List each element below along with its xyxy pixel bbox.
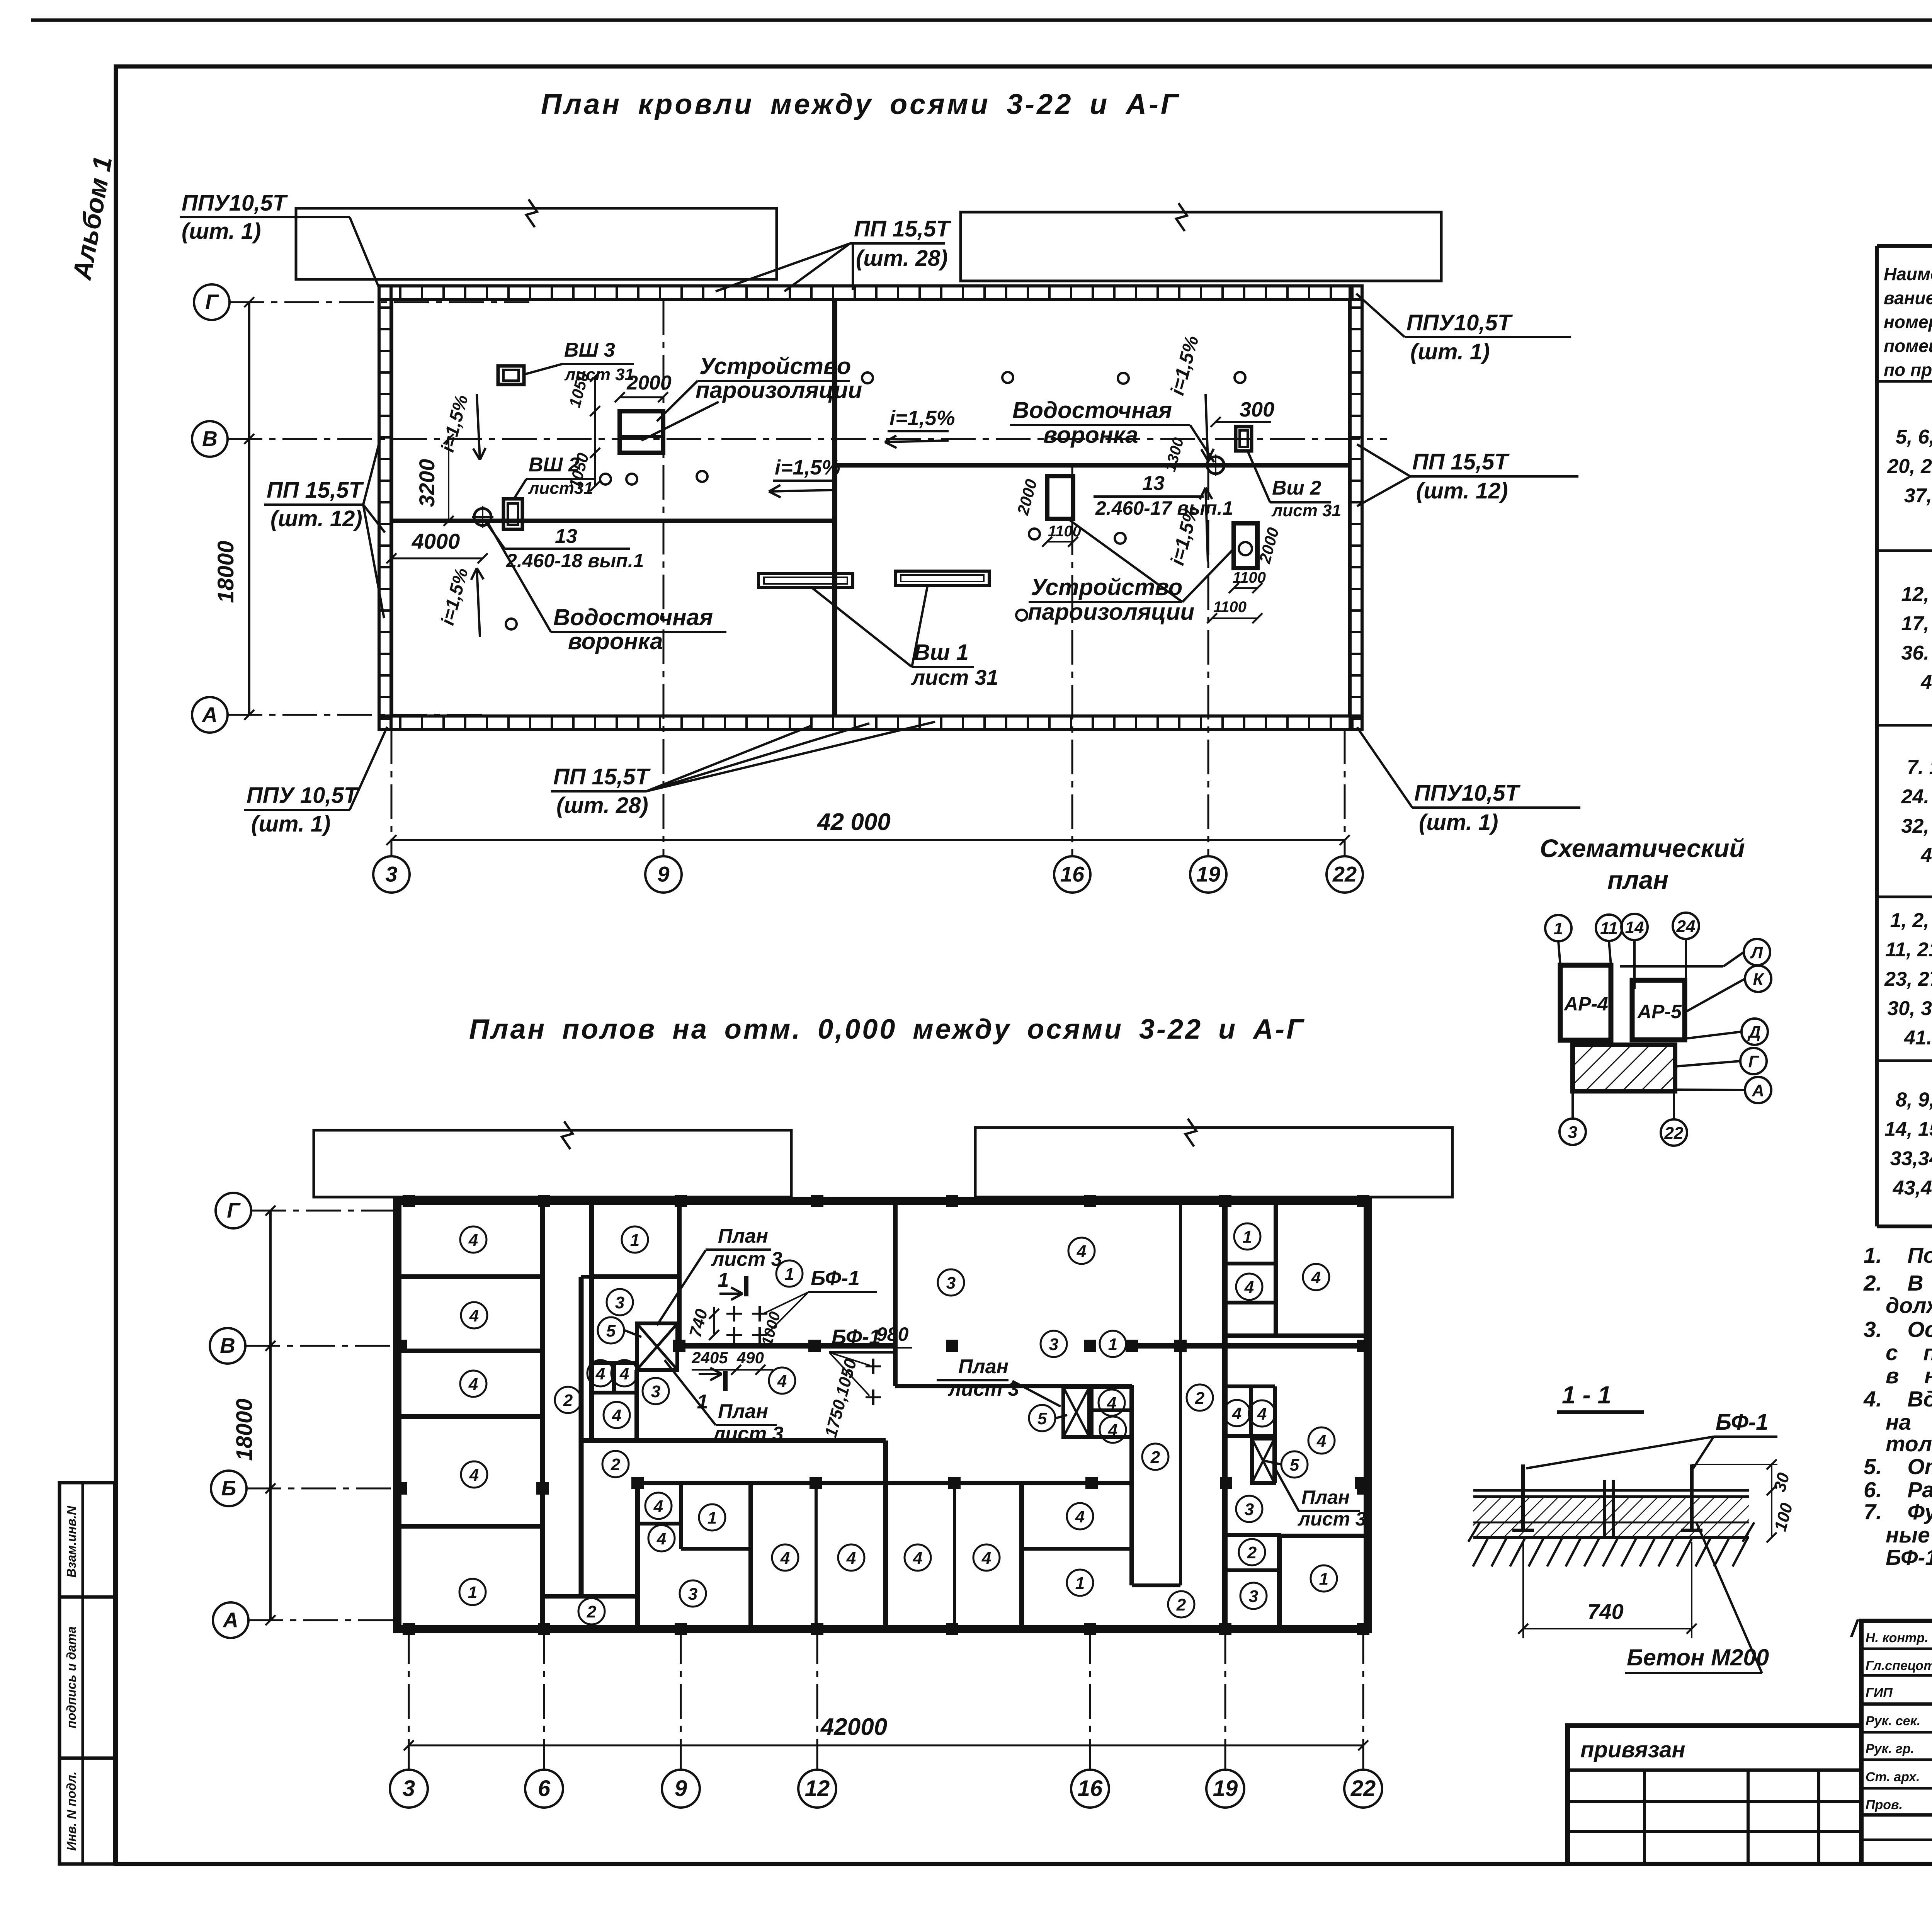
svg-text:32, 46,: 32, 46,	[1901, 815, 1932, 837]
svg-text:с плотностью скелета до 1: с плотностью скелета до 1,6 т/м3 с втрам…	[1886, 1340, 1932, 1365]
roof dividing wall	[832, 299, 837, 716]
svg-text:1: 1	[1554, 919, 1563, 938]
svg-text:Вш 1: Вш 1	[914, 640, 969, 665]
vent slot 2	[895, 571, 989, 585]
svg-text:36. 42.: 36. 42.	[1901, 642, 1932, 664]
svg-text:16: 16	[1078, 1776, 1103, 1801]
svg-text:Н. контр.: Н. контр.	[1866, 1631, 1928, 1645]
svg-text:Г: Г	[227, 1198, 241, 1222]
svg-text:4: 4	[469, 1466, 479, 1485]
svg-text:i=1,5%: i=1,5%	[889, 406, 955, 430]
svg-text:Устройство: Устройство	[1031, 574, 1182, 600]
right top block	[1226, 1262, 1276, 1265]
svg-text:33,34,35,: 33,34,35,	[1890, 1148, 1932, 1170]
svg-text:24: 24	[1676, 917, 1696, 936]
svg-text:8, 9, 10,: 8, 9, 10,	[1896, 1089, 1932, 1111]
roof axis 19 line	[1207, 465, 1209, 856]
svg-text:4: 4	[1316, 1432, 1326, 1451]
svg-text:12, 13,: 12, 13,	[1901, 583, 1932, 605]
svg-text:на ширину 0,8 м от стен: на ширину 0,8 м от стен уложить слой кер…	[1886, 1410, 1932, 1435]
wall x2317	[893, 1201, 898, 1386]
svg-text:БФ-1: БФ-1	[1716, 1410, 1768, 1435]
leader 5 to stair2	[1056, 1415, 1067, 1418]
wall y3587 corridor top	[895, 1384, 1132, 1388]
svg-text:Г: Г	[1748, 1052, 1759, 1071]
svg-text:Пров.: Пров.	[1866, 1798, 1903, 1812]
svg-text:5: 5	[1037, 1409, 1047, 1428]
svg-text:лист 3: лист 3	[1298, 1508, 1366, 1530]
svg-text:по проекту: по проекту	[1884, 360, 1932, 380]
svg-text:Бетон М200: Бетон М200	[1627, 1645, 1769, 1670]
svg-text:Устройство: Устройство	[699, 353, 851, 379]
svg-text:ВШ 3: ВШ 3	[564, 339, 615, 361]
roof axis 16 line	[1071, 465, 1073, 856]
right stair block	[1226, 1384, 1275, 1388]
svg-text:Вш 2: Вш 2	[1272, 477, 1321, 499]
svg-text:3: 3	[651, 1382, 660, 1401]
svg-text:План полов на отм. 0,000 ме: План полов на отм. 0,000 между осями 3-2…	[469, 1014, 1305, 1045]
small rooms near stair1	[592, 1361, 637, 1365]
dim 740	[713, 1307, 715, 1334]
vapour device 2	[1047, 476, 1073, 519]
svg-text:2: 2	[1176, 1595, 1186, 1614]
svg-text:3: 3	[1249, 1587, 1258, 1606]
svg-text:Д: Д	[1747, 1023, 1761, 1042]
svg-text:толщиной 15 см.: толщиной 15 см.	[1886, 1432, 1932, 1456]
dim 4000	[391, 558, 483, 560]
svg-text:12: 12	[805, 1776, 830, 1801]
svg-text:5: 5	[1290, 1456, 1299, 1475]
svg-text:7. 18.: 7. 18.	[1907, 756, 1932, 779]
svg-text:1: 1	[1075, 1574, 1085, 1593]
section ground hatch	[1473, 1539, 1747, 1566]
svg-text:13: 13	[1142, 472, 1165, 495]
section cut 1 lower	[723, 1371, 728, 1391]
svg-text:22: 22	[1350, 1776, 1376, 1801]
left rooms dividers	[397, 1274, 543, 1279]
svg-text:5: 5	[606, 1321, 616, 1340]
svg-text:Водосточная: Водосточная	[553, 604, 713, 630]
drain funnel left	[474, 509, 491, 526]
svg-text:9: 9	[675, 1776, 687, 1801]
svg-text:в него слоем щебня или: в него слоем щебня или гравия крупностью…	[1886, 1364, 1932, 1388]
svg-text:4: 4	[1244, 1278, 1254, 1297]
svg-text:4: 4	[612, 1406, 621, 1425]
schematic circles top	[1545, 915, 1571, 941]
svg-text:План: План	[718, 1400, 768, 1423]
svg-text:номер: номер	[1884, 312, 1932, 332]
svg-text:1: 1	[468, 1583, 477, 1602]
roof valley line right	[835, 463, 1349, 468]
svg-text:(шт. 1): (шт. 1)	[251, 811, 331, 837]
leader 5 to stair1	[625, 1330, 641, 1337]
floor plan outline	[397, 1201, 1368, 1629]
svg-text:ГИП: ГИП	[1866, 1685, 1893, 1700]
break mark right canopy	[1176, 203, 1187, 231]
bottom corridor	[543, 1594, 638, 1599]
svg-text:3: 3	[615, 1293, 624, 1312]
svg-text:(шт. 1): (шт. 1)	[182, 219, 261, 244]
svg-text:4: 4	[1232, 1404, 1242, 1423]
svg-text:2: 2	[611, 1455, 621, 1474]
svg-text:ПП 15,5Т: ПП 15,5Т	[854, 216, 951, 241]
roof plan parapet band bottom	[379, 716, 1362, 730]
vent slot 1	[759, 573, 853, 588]
svg-text:(шт. 28): (шт. 28)	[856, 246, 948, 271]
wall B axis	[679, 1343, 896, 1349]
svg-text:Л: Л	[1750, 943, 1763, 962]
svg-text:4: 4	[1077, 1242, 1086, 1261]
section dims 30 100	[1771, 1464, 1772, 1537]
svg-text:План: План	[718, 1225, 768, 1247]
svg-text:(шт. 1): (шт. 1)	[1419, 810, 1498, 835]
svg-text:11: 11	[1600, 919, 1618, 938]
svg-text:4: 4	[777, 1372, 787, 1391]
svg-text:3: 3	[1049, 1335, 1058, 1354]
sig table rows	[1861, 1648, 1932, 1650]
svg-text:3: 3	[385, 862, 397, 886]
section dim 740	[1522, 1542, 1524, 1638]
schematic hatched strip	[1573, 1045, 1675, 1091]
svg-text:4: 4	[1108, 1421, 1117, 1440]
section cut 1 upper	[744, 1276, 748, 1296]
roof plan parapet band right	[1350, 286, 1362, 730]
right bottom block	[1225, 1533, 1281, 1537]
svg-text:19: 19	[1213, 1776, 1238, 1801]
vapour device 1	[620, 411, 663, 453]
svg-text:3: 3	[946, 1274, 956, 1293]
section edge breaks	[1468, 1522, 1480, 1542]
svg-text:Инв. N подл.: Инв. N подл.	[64, 1771, 78, 1850]
schematic circles bottom	[1560, 1119, 1586, 1145]
svg-text:В: В	[202, 427, 218, 451]
svg-text:2: 2	[587, 1602, 597, 1621]
svg-text:А: А	[201, 702, 218, 726]
svg-text:9: 9	[657, 862, 669, 886]
floor axis circles bottom	[390, 1770, 428, 1808]
svg-text:(шт. 1): (шт. 1)	[1410, 339, 1490, 364]
roof plan: right canopy outline	[961, 212, 1441, 281]
roof bottom dim 42000	[391, 839, 1345, 841]
svg-text:3: 3	[1245, 1500, 1254, 1519]
svg-text:2405: 2405	[691, 1349, 728, 1367]
svg-text:4: 4	[1311, 1268, 1321, 1287]
svg-text:План кровли между осями 3-2: План кровли между осями 3-22 и А-Г	[541, 88, 1180, 120]
svg-text:37, 40: 37, 40	[1904, 485, 1932, 507]
svg-text:1. Покрытие полов назначено: 1. Покрытие полов назначено согласно СНи…	[1864, 1243, 1932, 1268]
svg-text:3: 3	[403, 1776, 415, 1801]
dim 2000 (device1)	[620, 396, 663, 398]
svg-text:3200: 3200	[415, 459, 439, 507]
floor axes left	[251, 1210, 400, 1212]
svg-text:лист 31: лист 31	[1271, 501, 1341, 520]
svg-text:лист 3: лист 3	[712, 1423, 784, 1445]
svg-text:лист 3: лист 3	[711, 1248, 782, 1270]
svg-text:980: 980	[876, 1323, 909, 1345]
floor 18000 dim	[269, 1211, 272, 1620]
roof plan parapet band top	[379, 286, 1362, 299]
svg-text:ППУ10,5Т: ППУ10,5Т	[1406, 310, 1513, 335]
title block outline	[1861, 1621, 1932, 1864]
section slab	[1473, 1489, 1749, 1492]
svg-text:1100: 1100	[1213, 599, 1247, 616]
svg-text:Гл.спецотд: Гл.спецотд	[1866, 1658, 1932, 1673]
svg-text:4: 4	[653, 1497, 663, 1516]
bottom corridor right	[1132, 1583, 1180, 1587]
svg-text:4: 4	[981, 1549, 991, 1568]
svg-text:(шт. 28): (шт. 28)	[556, 793, 648, 818]
svg-text:490: 490	[736, 1349, 764, 1367]
schematic leaders	[1558, 941, 1560, 965]
svg-text:воронка: воронка	[568, 628, 663, 654]
svg-text:43,44,45: 43,44,45	[1893, 1177, 1932, 1199]
svg-text:42000: 42000	[820, 1714, 887, 1740]
svg-text:14, 15, 19,: 14, 15, 19,	[1884, 1118, 1932, 1141]
top rule line	[31, 19, 1932, 22]
svg-text:План: План	[1301, 1486, 1350, 1508]
axis Г (roof)	[230, 301, 529, 303]
svg-text:2000: 2000	[626, 372, 672, 394]
floor plan: left canopy	[314, 1130, 791, 1197]
bottom rooms horizontals	[638, 1522, 681, 1526]
roof plan: left canopy outline	[296, 208, 777, 279]
roof axis 3 line	[391, 730, 393, 856]
roof axis 22 line	[1344, 730, 1346, 856]
svg-text:1: 1	[1108, 1335, 1117, 1354]
svg-text:4: 4	[469, 1306, 479, 1325]
svg-text:3. Основанием полов являе: 3. Основанием полов является уплотненный…	[1864, 1317, 1932, 1342]
svg-text:1: 1	[1243, 1228, 1252, 1247]
svg-text:вание или: вание или	[1884, 288, 1932, 308]
svg-text:4: 4	[468, 1231, 478, 1250]
svg-text:2. В уборных и душевых к: 2. В уборных и душевых керамические плит…	[1863, 1271, 1932, 1296]
svg-text:2: 2	[563, 1391, 573, 1410]
roof plan parapet band left	[379, 286, 391, 730]
svg-text:Взам.инв.N: Взам.инв.N	[64, 1505, 78, 1578]
svg-text:В: В	[220, 1333, 235, 1357]
floor plan: right canopy	[975, 1128, 1452, 1197]
svg-text:должны иметь рифленую ли: должны иметь рифленую лицевую поверхност…	[1886, 1293, 1932, 1318]
svg-text:4: 4	[1075, 1507, 1085, 1526]
svg-text:18000: 18000	[232, 1398, 257, 1461]
svg-text:1: 1	[1319, 1570, 1328, 1588]
svg-text:ные отверстия по получе: ные отверстия по получению оборудования.…	[1886, 1523, 1932, 1548]
svg-text:6. Расход парапетных пли: 6. Расход парапетных плит см. спецификац…	[1864, 1478, 1932, 1502]
svg-text:2: 2	[1150, 1448, 1160, 1467]
svg-text:i=1,5%: i=1,5%	[775, 456, 840, 479]
svg-text:13: 13	[555, 525, 577, 548]
dim 3200	[448, 439, 449, 521]
explication table grid	[1875, 246, 1879, 1226]
bottom rooms verticals	[635, 1483, 640, 1629]
svg-text:Рук. сек.: Рук. сек.	[1866, 1714, 1920, 1728]
VSh2 shaft left	[503, 499, 522, 529]
svg-text:4: 4	[595, 1364, 605, 1383]
18000 dim (roof)	[248, 302, 250, 715]
svg-text:3: 3	[1568, 1123, 1577, 1142]
svg-text:Б: Б	[221, 1476, 236, 1500]
svg-text:4: 4	[468, 1375, 478, 1394]
svg-text:41. 47: 41. 47	[1904, 1027, 1932, 1049]
svg-text:Водосточная: Водосточная	[1012, 397, 1172, 423]
svg-text:4: 4	[913, 1549, 922, 1568]
svg-text:19: 19	[1196, 862, 1220, 886]
svg-text:16: 16	[1060, 862, 1085, 886]
break mark left canopy	[526, 199, 537, 227]
svg-text:(шт. 12): (шт. 12)	[270, 506, 362, 531]
svg-text:помещения: помещения	[1884, 336, 1932, 356]
svg-text:48: 48	[1920, 671, 1932, 694]
svg-text:Рук. гр.: Рук. гр.	[1866, 1742, 1914, 1756]
svg-text:ППУ 10,5Т: ППУ 10,5Т	[247, 783, 359, 808]
svg-text:лист 31: лист 31	[911, 665, 998, 689]
svg-text:23, 27, 28.: 23, 27, 28.	[1884, 968, 1932, 990]
roof axis circles bottom	[373, 856, 410, 893]
svg-text:5, 6, 16,: 5, 6, 16,	[1896, 426, 1932, 448]
top middle walls	[589, 1201, 594, 1439]
wall y3728	[581, 1438, 886, 1443]
svg-text:подпись и дата: подпись и дата	[64, 1626, 78, 1728]
svg-text:300: 300	[1240, 398, 1274, 421]
wall axis6 vertical	[540, 1201, 545, 1629]
vapour device 3	[1234, 523, 1257, 568]
svg-text:7. Фундаментные болты Б: 7. Фундаментные болты БФ-1 установить в …	[1864, 1500, 1932, 1524]
svg-text:АР-4: АР-4	[1563, 993, 1608, 1015]
svg-text:4: 4	[1257, 1405, 1267, 1423]
annex table (priv)	[1568, 1726, 1861, 1864]
svg-text:2.460-18 вып.1: 2.460-18 вып.1	[506, 550, 644, 571]
svg-text:22: 22	[1664, 1124, 1684, 1143]
room number circles	[460, 1226, 486, 1253]
svg-text:1: 1	[630, 1231, 639, 1250]
svg-text:АР-5: АР-5	[1637, 1001, 1682, 1022]
svg-text:Ст. арх.: Ст. арх.	[1866, 1770, 1920, 1784]
svg-text:ППУ10,5Т: ППУ10,5Т	[182, 190, 288, 216]
drain funnel right	[1207, 457, 1224, 474]
schematic circles right	[1744, 939, 1770, 965]
stair core 2 (center)	[1063, 1387, 1089, 1437]
svg-text:воронка: воронка	[1043, 422, 1138, 448]
svg-text:4: 4	[1107, 1394, 1116, 1413]
svg-text:1, 2, 3, 4,: 1, 2, 3, 4,	[1890, 909, 1932, 932]
svg-text:ПП 15,5Т: ПП 15,5Т	[267, 478, 364, 503]
svg-text:ПП 15,5Т: ПП 15,5Т	[553, 764, 651, 789]
svg-text:6: 6	[538, 1776, 551, 1801]
axis В (roof)	[228, 438, 1387, 440]
leader 5 to stair3	[1264, 1461, 1281, 1464]
section bolts	[1521, 1464, 1525, 1530]
svg-text:49: 49	[1920, 844, 1932, 867]
svg-text:(шт. 12): (шт. 12)	[1416, 478, 1508, 503]
svg-text:11, 21, 22.: 11, 21, 22.	[1885, 939, 1932, 961]
svg-text:14: 14	[1625, 918, 1644, 937]
svg-text:А: А	[1752, 1081, 1764, 1100]
svg-text:1: 1	[697, 1391, 708, 1413]
svg-text:2: 2	[1247, 1543, 1257, 1562]
svg-text:3: 3	[688, 1585, 697, 1604]
svg-text:1: 1	[718, 1269, 729, 1291]
svg-text:17, 25,: 17, 25,	[1901, 612, 1932, 635]
svg-text:4: 4	[656, 1529, 666, 1548]
VSh2 shaft right	[1236, 427, 1252, 451]
svg-text:42 000: 42 000	[816, 809, 891, 835]
corridor walls right-center	[1129, 1386, 1134, 1585]
svg-text:4: 4	[780, 1549, 790, 1568]
svg-text:1: 1	[707, 1509, 717, 1527]
svg-text:30, 38,39.: 30, 38,39.	[1887, 997, 1932, 1020]
floor 42000 dim	[409, 1745, 1363, 1747]
svg-text:2.460-17 вып.1: 2.460-17 вып.1	[1095, 497, 1233, 519]
svg-text:5. Отметки , места располож: 5. Отметки , места расположения трапов с…	[1864, 1454, 1932, 1479]
left margin cells	[60, 1483, 115, 1864]
svg-text:1 - 1: 1 - 1	[1562, 1381, 1611, 1409]
svg-text:18000: 18000	[213, 541, 238, 603]
floor plan column squares	[403, 1195, 415, 1207]
roof axis 9 line	[663, 300, 665, 856]
corridor wall x1504	[579, 1277, 584, 1596]
svg-text:лист 3: лист 3	[947, 1378, 1019, 1400]
AR-4 box	[1560, 965, 1611, 1040]
svg-text:4: 4	[619, 1364, 629, 1383]
wall y3838	[638, 1481, 1132, 1485]
AR-5 box	[1632, 980, 1685, 1040]
svg-text:К: К	[1753, 970, 1764, 989]
svg-text:привязан: привязан	[1580, 1737, 1685, 1762]
roof inner outline	[392, 299, 1349, 716]
svg-text:Схематический: Схематический	[1540, 834, 1745, 862]
dim 1050/1050	[594, 377, 596, 486]
svg-text:пароизоляции: пароизоляции	[696, 377, 862, 403]
svg-text:4: 4	[846, 1549, 856, 1568]
svg-text:План: План	[958, 1355, 1009, 1378]
svg-text:БФ-1: БФ-1	[811, 1267, 860, 1290]
roof vent circles	[600, 474, 611, 485]
svg-text:ПП 15,5Т: ПП 15,5Т	[1412, 449, 1510, 474]
stair core 1	[637, 1323, 677, 1370]
svg-text:20, 26,31,: 20, 26,31,	[1887, 455, 1932, 478]
VSh3 shaft	[498, 366, 524, 384]
svg-text:Наимено-: Наимено-	[1884, 264, 1932, 284]
svg-text:4. Вдоль наружных стен з: 4. Вдоль наружных стен здания под констр…	[1863, 1387, 1932, 1412]
svg-text:БФ-1: БФ-1	[832, 1325, 881, 1349]
svg-text:2: 2	[1195, 1389, 1205, 1408]
svg-text:пароизоляции: пароизоляции	[1028, 599, 1194, 625]
svg-text:ППУ10,5Т: ППУ10,5Т	[1414, 781, 1521, 806]
axis А (roof)	[228, 714, 487, 716]
svg-text:1: 1	[785, 1265, 794, 1284]
floor axis verticals to circles	[408, 1629, 410, 1770]
svg-text:БФ-1 см. спецификацию: БФ-1 см. спецификацию на листе 32.	[1886, 1545, 1932, 1570]
svg-text:740: 740	[1587, 1599, 1623, 1624]
svg-text:22: 22	[1332, 862, 1357, 886]
svg-text:4000: 4000	[412, 529, 460, 553]
svg-text:план: план	[1607, 866, 1668, 894]
svg-text:Г: Г	[205, 290, 219, 314]
roof valley line left	[392, 519, 835, 523]
svg-text:А: А	[222, 1608, 238, 1632]
svg-text:24. 29.: 24. 29.	[1901, 786, 1932, 808]
